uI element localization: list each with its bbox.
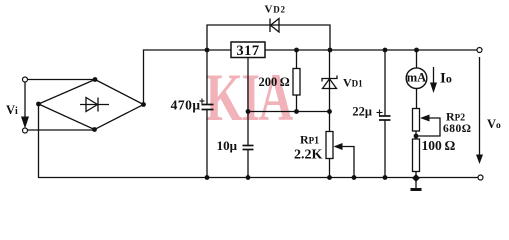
svg-text:10μ: 10μ xyxy=(217,138,238,153)
svg-text:470μ: 470μ xyxy=(171,98,201,113)
svg-text:VD1: VD1 xyxy=(343,76,363,90)
svg-text:RP2: RP2 xyxy=(446,110,465,124)
svg-text:200 Ω: 200 Ω xyxy=(259,75,290,89)
svg-text:100 Ω: 100 Ω xyxy=(422,138,456,153)
svg-text:Vo: Vo xyxy=(487,117,501,131)
svg-text:22μ: 22μ xyxy=(352,105,372,119)
svg-text:RP1: RP1 xyxy=(300,132,319,146)
svg-text:317: 317 xyxy=(236,43,259,59)
svg-text:VD2: VD2 xyxy=(265,4,286,16)
svg-text:KIA: KIA xyxy=(206,60,294,135)
svg-text:mA: mA xyxy=(407,71,426,85)
svg-text:2.2K: 2.2K xyxy=(294,148,323,163)
svg-text:680Ω: 680Ω xyxy=(443,123,471,135)
svg-text:Io: Io xyxy=(440,71,452,87)
svg-text:Vi: Vi xyxy=(6,103,18,117)
